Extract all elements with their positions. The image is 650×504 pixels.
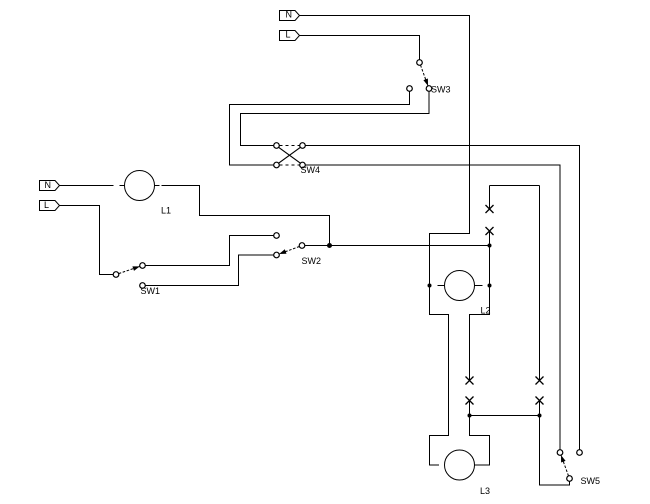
switch SW3 bbox=[407, 60, 451, 95]
svg-text:SW2: SW2 bbox=[302, 256, 322, 266]
svg-text:L: L bbox=[286, 30, 291, 40]
wire: L1 left pin stub bbox=[120, 185, 125, 187]
wire: L1 to SW2 common junction bbox=[162, 186, 330, 246]
switch SW4 (intermediate) bbox=[274, 143, 320, 175]
wire: SW1 bottom contact to SW2 bottom-left contact bbox=[145, 255, 274, 286]
switch SW5 bbox=[557, 450, 600, 486]
connector terminal X (lower, x=539) bbox=[536, 397, 544, 405]
node: lower connector left junction bbox=[468, 414, 472, 418]
wire: SW4 top-right to SW5 right contact bbox=[305, 146, 580, 451]
connector terminal X (upper, x=469) bbox=[466, 377, 474, 385]
node: SW2 common / L1 junction bbox=[327, 243, 332, 248]
wire: link between lower connector nodes bbox=[470, 415, 540, 417]
connector terminal X (lower, x=489) bbox=[486, 227, 494, 235]
svg-text:L: L bbox=[44, 200, 49, 210]
svg-text:SW4: SW4 bbox=[301, 165, 321, 175]
terminal N (top supply) bbox=[280, 10, 300, 21]
wire: SW2 common to node over L2 bbox=[305, 245, 490, 247]
node: L2 right branch junction bbox=[488, 244, 492, 248]
wire: SW4 bottom-right to SW5 left contact bbox=[305, 165, 560, 450]
svg-text:SW5: SW5 bbox=[581, 476, 601, 486]
wire: left L terminal to SW1 common bbox=[60, 206, 114, 275]
wire: lower connector to L3 right pin bbox=[470, 401, 490, 466]
wire: SW3 left contact to SW4 bottom-left bbox=[230, 92, 410, 166]
wire: stub into connector X top (x=489) bbox=[489, 186, 491, 210]
connector terminal X (upper, x=489) bbox=[486, 205, 494, 213]
node: L2 right pin junction bbox=[488, 284, 492, 288]
wire: right connector drop (x=539) bbox=[539, 186, 541, 381]
terminal N (left supply) bbox=[40, 180, 60, 191]
svg-text:N: N bbox=[286, 10, 293, 20]
wire: top L feed to SW3 common bbox=[300, 36, 420, 61]
node: L2 left pin junction bbox=[428, 284, 432, 288]
lamp L1 bbox=[125, 171, 172, 216]
svg-text:SW3: SW3 bbox=[431, 85, 451, 95]
svg-text:L1: L1 bbox=[161, 206, 171, 216]
connector terminal X (lower, x=469) bbox=[466, 397, 474, 405]
wire: L2 left pin stub bbox=[438, 285, 445, 287]
svg-text:L2: L2 bbox=[481, 306, 491, 316]
wire: L2 right pin stub bbox=[475, 285, 483, 287]
switch SW1 bbox=[113, 263, 160, 296]
lamp L3 bbox=[445, 450, 491, 496]
svg-text:N: N bbox=[45, 180, 52, 190]
svg-text:L3: L3 bbox=[480, 486, 490, 496]
wire: L1 right pin stub bbox=[155, 185, 160, 187]
connector terminal X (upper, x=539) bbox=[536, 377, 544, 385]
wire: SW3 lower contact to SW4 top-left bbox=[241, 92, 430, 146]
terminal L (left supply) bbox=[40, 200, 60, 211]
wire: left N terminal to lamp L1 bbox=[60, 185, 114, 187]
wire: connector X bottom to L2 right side and down to lower connector bbox=[470, 231, 490, 381]
svg-text:SW1: SW1 bbox=[141, 286, 161, 296]
switch SW2 bbox=[274, 233, 321, 266]
wire: SW1 top contact to SW2 top-left contact bbox=[145, 236, 274, 266]
wire: lower right connector to SW5 common bbox=[540, 401, 570, 486]
wire: connector link above L2 bbox=[490, 185, 540, 187]
wire: top N feed, down right side, to L2 left side and L3 left pin bbox=[300, 16, 470, 466]
lamp L2 bbox=[445, 271, 491, 316]
node: lower connector right junction bbox=[538, 414, 542, 418]
terminal L (top supply) bbox=[280, 30, 300, 41]
